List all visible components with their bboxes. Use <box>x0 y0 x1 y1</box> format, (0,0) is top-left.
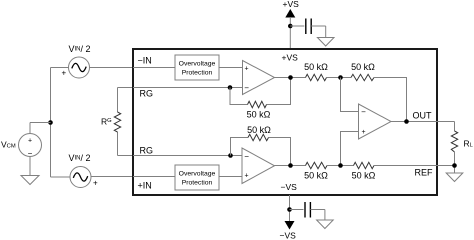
wire RG lower line <box>133 155 242 157</box>
source V_IN/2 label (bottom) <box>69 153 91 163</box>
resistor R2 50k (top second) <box>351 74 374 80</box>
junction dot REF/RL <box>452 163 457 168</box>
wire V2 to +IN pin <box>91 176 133 178</box>
svg-text:50 kΩ: 50 kΩ <box>247 110 271 120</box>
wire protection to A2 + input <box>219 176 242 178</box>
resistor A1 feedback 50k <box>248 101 267 107</box>
ground (bottom, at C2) <box>317 220 334 229</box>
resistor R1 50k (top first) <box>306 74 327 80</box>
op-amp A1 <box>243 61 275 95</box>
svg-text:Protection: Protection <box>182 180 213 187</box>
junction dot A2 inverting node <box>228 153 233 158</box>
svg-text:−VS: −VS <box>281 182 298 192</box>
source V1 sine symbol (top V_IN/2) <box>69 57 90 78</box>
overvoltage protection block (bottom) <box>175 165 219 190</box>
svg-text:50 kΩ: 50 kΩ <box>247 125 271 135</box>
svg-text:−: − <box>361 107 366 116</box>
svg-text:Overvoltage: Overvoltage <box>179 61 216 68</box>
svg-text:−: − <box>244 152 249 161</box>
capacitor C1 (supply bypass) <box>306 19 311 35</box>
wire RL to REF node <box>454 152 456 173</box>
wire to supply cap C1 <box>290 25 304 27</box>
junction dot A1 inverting node <box>228 85 233 90</box>
wire V1 to -IN pin <box>90 67 134 69</box>
pin label RG (lower) <box>140 146 154 156</box>
resistor R2 value 50 kOhm <box>351 62 375 72</box>
wire -VS down from box <box>289 195 291 221</box>
resistor R4 value 50 kOhm <box>352 171 376 181</box>
junction dot OUT node <box>404 119 409 124</box>
wire cap C1 to ground <box>311 26 326 38</box>
pin label REF <box>415 168 434 178</box>
wire A2 output <box>275 165 306 167</box>
polarity + of V2 <box>93 179 98 188</box>
resistor R1 value 50 kOhm <box>304 62 328 72</box>
junction dot -VS <box>287 207 292 212</box>
wire protection to A1 + input <box>219 67 243 69</box>
svg-text:+: + <box>93 179 98 188</box>
svg-text:50 kΩ: 50 kΩ <box>304 171 328 181</box>
svg-text:50 kΩ: 50 kΩ <box>304 62 328 72</box>
ground (top, at C1) <box>317 38 334 47</box>
-VS arrow <box>285 221 295 230</box>
wire A3 inverting input <box>341 78 359 112</box>
wire R1 to R2 <box>327 77 352 79</box>
source VCM <box>19 134 42 159</box>
svg-text:50 kΩ: 50 kΩ <box>352 171 376 181</box>
wire R4 to REF <box>374 165 455 167</box>
wire A2 feedback loop <box>231 138 291 166</box>
svg-text:+: + <box>28 138 32 145</box>
junction dot A2 output <box>288 163 293 168</box>
resistor RL label <box>464 139 474 149</box>
svg-text:+IN: +IN <box>138 181 152 191</box>
junction dot +VS <box>288 24 293 29</box>
svg-text:−IN: −IN <box>138 56 152 66</box>
svg-text:RG: RG <box>140 146 154 156</box>
wire A1 feedback loop <box>230 78 291 105</box>
svg-text:RG: RG <box>140 89 154 99</box>
svg-text:REF: REF <box>415 168 434 178</box>
polarity + of V1 <box>62 69 67 78</box>
wire R2 to output feedback node <box>374 78 407 122</box>
pin label +IN <box>138 181 152 191</box>
svg-text:+: + <box>62 69 67 78</box>
wire A1 output <box>275 77 306 79</box>
pin label -IN <box>138 56 152 66</box>
node -VS label (bottom) <box>280 231 297 240</box>
wire +VS down to box <box>289 17 291 49</box>
wire to VCM source <box>30 123 51 134</box>
junction dot A3 noninverting node <box>338 163 343 168</box>
node -VS label (inside box) <box>281 182 298 192</box>
resistor A2 feedback 50k <box>248 134 269 140</box>
wire to supply cap C2 <box>290 209 304 211</box>
svg-text:−: − <box>244 84 249 93</box>
wire common rail vertical <box>50 68 52 178</box>
wire OUT to load <box>454 122 456 132</box>
svg-text:+: + <box>245 172 249 179</box>
source V_IN/2 label (top) <box>69 44 91 54</box>
resistor RG (external gain resistor) <box>114 88 133 156</box>
junction dot A3 inverting node <box>338 75 343 80</box>
resistor A2 feedback value 50 kOhm <box>247 125 271 135</box>
wire -IN to overvoltage protection <box>133 67 175 69</box>
wire VCM to ground <box>29 157 31 176</box>
resistor R3 50k (bottom first) <box>306 162 328 168</box>
op-amp A3 <box>359 104 392 139</box>
svg-text:+VS: +VS <box>283 0 300 9</box>
svg-text:+VS: +VS <box>282 53 299 63</box>
svg-text:OUT: OUT <box>413 111 433 121</box>
IC boundary box U1 <box>133 49 437 195</box>
junction dot A1 output <box>288 75 293 80</box>
svg-text:−VS: −VS <box>280 231 297 240</box>
+VS arrow <box>285 9 295 18</box>
capacitor C2 (supply bypass) <box>305 202 310 218</box>
resistor RG label <box>101 117 112 127</box>
resistor RL (load) <box>451 131 457 152</box>
svg-text:Protection: Protection <box>182 70 213 77</box>
overvoltage protection block (top) <box>175 55 219 80</box>
svg-text:50 kΩ: 50 kΩ <box>351 62 375 72</box>
op-amp A2 <box>242 148 275 184</box>
wire cap C2 to ground <box>310 210 325 221</box>
wire RG upper line <box>133 87 243 89</box>
pin label RG (upper) <box>140 89 154 99</box>
svg-text:+: + <box>361 129 365 136</box>
pin label OUT <box>413 111 433 121</box>
resistor R4 50k (bottom second) <box>354 162 375 168</box>
wire V1 left to common rail <box>51 67 69 69</box>
svg-text:Overvoltage: Overvoltage <box>179 171 216 178</box>
wire A3 noninverting input <box>341 132 359 166</box>
ground (below RL) <box>446 173 463 182</box>
resistor R3 value 50 kOhm <box>304 171 328 181</box>
wire R3 to R4 <box>327 165 354 167</box>
node +VS label (inside box) <box>282 53 299 63</box>
resistor A1 feedback value 50 kOhm <box>247 110 271 120</box>
wire A3 output to OUT <box>391 121 455 123</box>
ground (below VCM) <box>21 176 39 185</box>
svg-text:+: + <box>245 65 249 72</box>
wire +IN to overvoltage protection <box>133 176 175 178</box>
wire rail to V2 <box>51 176 71 178</box>
source V2 sine symbol (bottom V_IN/2) <box>70 167 91 188</box>
junction dot rail/VCM <box>48 120 53 125</box>
source VCM label <box>1 140 16 150</box>
node +VS label (top) <box>283 0 300 9</box>
